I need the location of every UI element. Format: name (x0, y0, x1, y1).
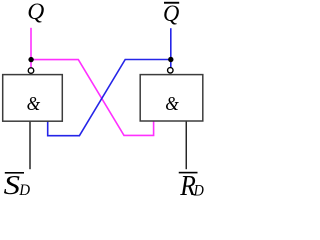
svg-text:D: D (193, 182, 204, 196)
svg-text:S: S (4, 170, 21, 196)
svg-text:&: & (165, 93, 179, 115)
svg-text:D: D (18, 182, 30, 196)
svg-text:&: & (27, 93, 41, 115)
svg-text:Q: Q (27, 0, 45, 24)
svg-text:Q: Q (163, 1, 180, 26)
